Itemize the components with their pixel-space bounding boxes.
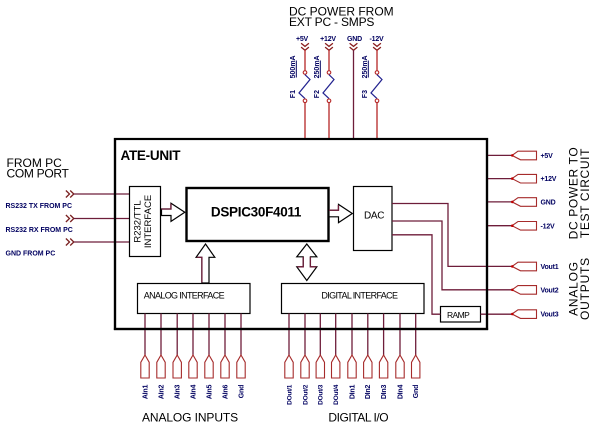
- wire DOut3 lead: [319, 314, 321, 356]
- svg-text:DAC: DAC: [364, 211, 384, 222]
- svg-text:DOut/3: DOut/3: [318, 384, 325, 405]
- pin AIn6: [221, 355, 229, 378]
- wire +5V out stub: [488, 154, 512, 156]
- svg-text:+12V: +12V: [541, 176, 557, 183]
- pin AIn2: [157, 355, 165, 378]
- wire AIn4 lead: [192, 314, 194, 356]
- svg-text:-12V: -12V: [541, 223, 556, 230]
- svg-text:R232/TTL: R232/TTL: [133, 200, 144, 242]
- input arrow RS232 TX: [66, 191, 74, 198]
- wire DAC out3 to RAMP: [392, 235, 441, 314]
- wire DIn4 lead: [399, 314, 401, 356]
- svg-text:Vout2: Vout2: [541, 287, 559, 294]
- wire DOut1 lead: [288, 314, 290, 356]
- svg-text:COM PORT: COM PORT: [7, 166, 70, 180]
- wire AIn6 lead: [224, 314, 226, 356]
- wire DAC out2 to Vout2: [392, 221, 512, 290]
- pin DOut4: [332, 355, 340, 378]
- pin AIn5: [205, 355, 213, 378]
- svg-text:INTERFACE: INTERFACE: [143, 195, 154, 248]
- svg-text:AIn2: AIn2: [158, 384, 165, 399]
- svg-text:-12V: -12V: [370, 36, 385, 43]
- svg-text:DIn2: DIn2: [365, 384, 372, 399]
- wire AIn1 lead: [144, 314, 146, 356]
- pin DIn3: [379, 355, 387, 378]
- svg-text:GND FROM PC: GND FROM PC: [6, 251, 56, 258]
- bus arrow R232 to DSPIC: [162, 203, 185, 221]
- input arrow -12V: [373, 43, 381, 50]
- svg-text:ANALOG INPUTS: ANALOG INPUTS: [142, 410, 238, 424]
- fuse F3: [371, 71, 382, 103]
- block U6 RAMP: [441, 307, 481, 323]
- wire DIn2 lead: [367, 314, 369, 356]
- wire -12V upper: [376, 50, 378, 70]
- block U2 R232/TTL INTERFACE: [130, 187, 161, 257]
- ATE-UNIT enclosure border overlay (right): [486, 138, 488, 330]
- wire DIn1 lead: [351, 314, 353, 356]
- wire +12V out stub: [488, 178, 512, 180]
- wire +5V upper: [304, 50, 306, 70]
- svg-text:RAMP: RAMP: [447, 310, 470, 320]
- wire GND from PC: [74, 241, 129, 243]
- svg-text:AIn1: AIn1: [142, 384, 149, 399]
- pin AIn1: [141, 355, 149, 378]
- svg-text:RS232 TX FROM PC: RS232 TX FROM PC: [6, 203, 73, 210]
- wire GND out stub: [488, 201, 512, 203]
- wire digital Gnd lead: [415, 314, 417, 356]
- svg-text:Vout1: Vout1: [541, 264, 559, 271]
- svg-text:DIn3: DIn3: [381, 384, 388, 399]
- svg-text:DOut/4: DOut/4: [333, 384, 340, 405]
- svg-text:OUTPUTS: OUTPUTS: [578, 257, 592, 320]
- svg-text:DOut/1: DOut/1: [286, 384, 293, 405]
- wire +5V lower: [304, 103, 306, 138]
- pin AIn3: [173, 355, 181, 378]
- input arrow GND from PC: [66, 239, 74, 246]
- input arrow RS232 RX: [66, 215, 74, 222]
- pin analog Gnd: [237, 355, 245, 378]
- wire analog Gnd lead: [240, 314, 242, 356]
- wire DIn3 lead: [383, 314, 385, 356]
- block U5 DIGITAL INTERFACE: [282, 284, 425, 314]
- wire -12V lower: [376, 103, 378, 138]
- svg-text:DIn1: DIn1: [349, 384, 356, 399]
- port tag +5V: [512, 151, 537, 160]
- fuse F2: [323, 71, 334, 103]
- port tag Vout2: [512, 286, 537, 295]
- svg-text:AIn3: AIn3: [175, 384, 182, 399]
- svg-text:RS232 RX FROM PC: RS232 RX FROM PC: [6, 227, 73, 234]
- svg-text:DIGITAL I/O: DIGITAL I/O: [328, 410, 388, 424]
- svg-text:+5V: +5V: [296, 36, 309, 43]
- pin digital Gnd: [412, 355, 420, 378]
- pin DOut1: [285, 355, 293, 378]
- ATE-UNIT enclosure box: [115, 139, 487, 329]
- fuse F1: [299, 71, 310, 103]
- bus arrow DSPIC to DAC: [329, 204, 352, 222]
- svg-text:GND: GND: [541, 200, 556, 207]
- ATE-UNIT enclosure border overlay (bottom): [114, 328, 488, 330]
- ATE-UNIT enclosure border overlay (left): [114, 138, 116, 330]
- port tag -12V: [512, 222, 537, 231]
- wire RAMP to Vout3: [481, 313, 513, 315]
- pin DIn2: [364, 355, 372, 378]
- port tag Vout1: [512, 262, 537, 271]
- wire +12V lower: [328, 103, 330, 138]
- title: ANALOG OUTPUTS (vertical): [566, 257, 592, 320]
- label R232/TTL INTERFACE: [133, 195, 155, 248]
- svg-text:AIn5: AIn5: [206, 384, 213, 399]
- input arrow +5V: [301, 43, 309, 50]
- port tag +12V: [512, 174, 537, 183]
- svg-text:ATE-UNIT: ATE-UNIT: [121, 148, 182, 163]
- svg-text:Vout3: Vout3: [541, 312, 559, 319]
- wire GND vertical: [353, 50, 355, 138]
- svg-text:Gnd: Gnd: [238, 385, 245, 398]
- svg-text:DSPIC30F4011: DSPIC30F4011: [211, 205, 302, 220]
- input arrow +12V: [325, 43, 333, 50]
- bus arrow ANALOG INTERFACE to DSPIC: [196, 244, 215, 283]
- pin DOut3: [316, 355, 324, 378]
- svg-text:DIGITAL INTERFACE: DIGITAL INTERFACE: [321, 290, 398, 300]
- pin AIn4: [189, 355, 197, 378]
- svg-text:TEST CIRCUIT: TEST CIRCUIT: [578, 148, 592, 238]
- bus arrow DSPIC to DIGITAL INTERFACE (bidirectional): [297, 244, 317, 281]
- wire AIn3 lead: [176, 314, 178, 356]
- title: DC POWER TO TEST CIRCUIT (vertical): [566, 147, 592, 240]
- block U3 DAC: [354, 187, 393, 251]
- svg-text:EXT PC - SMPS: EXT PC - SMPS: [289, 15, 374, 29]
- wire AIn5 lead: [208, 314, 210, 356]
- pin DIn4: [396, 355, 404, 378]
- pin DOut2: [301, 355, 309, 378]
- wire DOut2 lead: [304, 314, 306, 356]
- wire DOut4 lead: [335, 314, 337, 356]
- svg-text:DIn4: DIn4: [397, 384, 404, 399]
- pin DIn1: [348, 355, 356, 378]
- port tag GND: [512, 198, 537, 207]
- svg-text:Gnd: Gnd: [413, 385, 420, 398]
- block U4 ANALOG INTERFACE: [138, 284, 251, 314]
- block U1 DSPIC30F4011: [187, 188, 329, 241]
- svg-text:ANALOG INTERFACE: ANALOG INTERFACE: [144, 290, 225, 300]
- svg-text:AIn4: AIn4: [190, 384, 197, 399]
- wire RS232 TX from PC: [74, 193, 129, 195]
- wire RS232 RX from PC: [74, 218, 129, 220]
- wire AIn2 lead: [160, 314, 162, 356]
- svg-text:+5V: +5V: [541, 153, 554, 160]
- wire -12V out stub: [488, 225, 512, 227]
- port tag Vout3: [512, 310, 537, 319]
- svg-text:DOut/2: DOut/2: [302, 384, 309, 405]
- input arrow GND: [350, 43, 358, 50]
- svg-text:GND: GND: [347, 36, 362, 43]
- svg-text:AIn6: AIn6: [222, 384, 229, 399]
- svg-text:+12V: +12V: [320, 36, 336, 43]
- wire DAC out1 to Vout1: [392, 204, 512, 267]
- wire +12V upper: [328, 50, 330, 70]
